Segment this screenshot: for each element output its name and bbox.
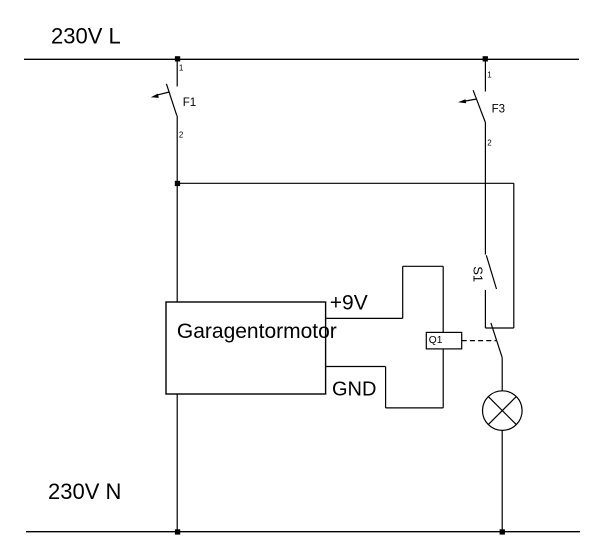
svg-text:Garagentormotor: Garagentormotor	[177, 320, 337, 343]
svg-text:F3: F3	[492, 104, 505, 116]
svg-text:1: 1	[487, 70, 492, 79]
wire F3 upper stub	[484, 59, 486, 92]
breaker F3 arrowhead	[458, 99, 466, 103]
breaker F1 actuator arrow line	[157, 92, 170, 95]
switch S1 blade	[486, 255, 496, 289]
relay contact Q1 blade	[491, 323, 502, 358]
wire F1 lower stub down to motor box top	[176, 116, 178, 302]
wire right loop vertical x=513.8	[513, 183, 515, 328]
breaker F1 blade	[166, 84, 176, 116]
wire loop bottom horizontal	[386, 407, 444, 409]
svg-text:2: 2	[487, 139, 492, 148]
breaker F3 blade	[473, 90, 485, 122]
dashed link Q1 coil to contact	[462, 340, 496, 342]
wire GND horizontal from motor box	[326, 366, 386, 368]
wire L bus (top horizontal 230V L line)	[24, 58, 579, 60]
wire horizontal from F1 branch to right loop	[177, 182, 514, 184]
junction dot at F3 top on L bus	[483, 56, 488, 61]
lamp E1 cross line 2	[488, 397, 516, 425]
svg-text:230V L: 230V L	[51, 24, 121, 49]
svg-text:230V N: 230V N	[48, 479, 121, 504]
wire coil branch vertical through Q1	[442, 266, 444, 408]
svg-text:1: 1	[179, 64, 184, 73]
junction dot lamp branch on N bus	[500, 529, 505, 534]
relay coil Q1 box	[426, 332, 461, 349]
svg-text:GND: GND	[332, 378, 376, 400]
wire GND drop	[385, 367, 387, 408]
svg-text:S1: S1	[471, 266, 486, 282]
svg-text:Q1: Q1	[429, 335, 443, 346]
wire motor box bottom to N bus	[176, 394, 178, 532]
junction dot at F1 top on L bus	[175, 56, 180, 61]
wire F3 lower stub down to S1	[484, 123, 486, 255]
wire S1 lower stub	[484, 290, 486, 328]
lamp E1 circle	[483, 391, 523, 431]
svg-text:2: 2	[179, 131, 184, 140]
svg-text:F1: F1	[183, 97, 196, 109]
wire loop top horizontal	[403, 265, 444, 267]
wire lamp to N bus	[501, 430, 503, 531]
svg-text:+9V: +9V	[330, 291, 368, 314]
breaker F1 arrowhead	[151, 94, 159, 98]
wire contact to lamp	[501, 358, 503, 391]
breaker F3 actuator arrow line	[463, 99, 477, 101]
lamp E1 cross line 1	[488, 397, 516, 425]
wire +9V horizontal from motor box	[326, 317, 403, 319]
motor box Garagentormotor	[166, 302, 326, 394]
wire horizontal below S1 to right loop	[485, 327, 513, 329]
wire N bus (bottom horizontal 230V N line)	[26, 531, 580, 533]
junction dot F1 branch / cross wire	[175, 181, 180, 186]
wire +9V riser	[402, 266, 404, 318]
wire F1 upper stub	[176, 59, 178, 87]
junction dot motor branch on N bus	[175, 529, 180, 534]
